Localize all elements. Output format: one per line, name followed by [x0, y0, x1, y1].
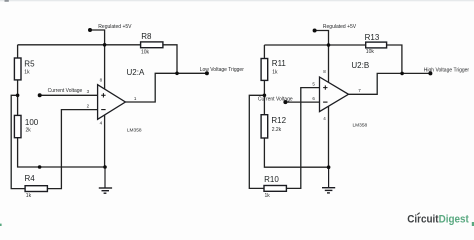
svg-text:High Voltage Trigger: High Voltage Trigger	[424, 67, 470, 73]
junction: pin4/ground row (left)	[103, 165, 107, 169]
wire: op-amp U2:A V- pin 4	[104, 115, 106, 167]
svg-text:LM358: LM358	[353, 123, 368, 129]
resistor R8	[141, 32, 163, 56]
wire: R11 top feed	[263, 45, 265, 59]
ground (left)	[99, 167, 112, 193]
op-amp U2:A	[98, 68, 145, 134]
svg-text:R4: R4	[25, 174, 36, 183]
junction: node A (R5/pot)	[16, 94, 20, 98]
wire: U2:A output to low voltage trigger	[125, 73, 206, 102]
wire: op-amp U2:B V+ pin 8	[328, 45, 330, 82]
svg-text:Current Voltage: Current Voltage	[48, 88, 83, 94]
svg-text:R10: R10	[264, 175, 279, 184]
wire: top rail right segment	[264, 44, 365, 46]
wire: R11 bottom to node B	[263, 80, 265, 114]
junction: R8 to trigger row	[175, 72, 179, 76]
resistor R10	[264, 175, 286, 199]
faint top border	[0, 0, 474, 2]
wire: R10 right up to pin 5	[286, 88, 319, 189]
junction: +5V on rail (right)	[327, 43, 331, 47]
net Current Voltage (right)	[258, 97, 293, 105]
wire: R5 top feed	[17, 45, 19, 58]
net Regulated +5V (right)	[313, 24, 357, 32]
junction: pot wiper on ground row	[38, 165, 42, 169]
wire: op-amp U2:B V- pin 4	[328, 106, 330, 167]
wire: current voltage tap to pin 6	[285, 101, 319, 103]
svg-text:2k: 2k	[26, 128, 32, 134]
svg-text:1k: 1k	[24, 69, 30, 75]
wire: +5V tap to rail (right)	[315, 31, 329, 46]
svg-text:Regulated +5V: Regulated +5V	[98, 24, 132, 30]
junction: pin4/ground row (right)	[327, 165, 331, 169]
svg-text:2.2k: 2.2k	[272, 127, 282, 133]
net Low Voltage Trigger	[200, 67, 245, 75]
ground (right)	[322, 167, 335, 193]
svg-text:R8: R8	[141, 32, 152, 41]
svg-text:Current Voltage: Current Voltage	[258, 97, 293, 103]
wire: top rail left segment	[18, 44, 141, 46]
wire: R13 right to corner, down to trigger row	[387, 45, 402, 73]
wire: U2:B output to high voltage trigger	[349, 73, 431, 94]
CircuitDigest logo	[407, 213, 474, 226]
junction: +5V on rail (left)	[103, 43, 107, 47]
svg-text:U2:B: U2:B	[351, 61, 369, 70]
net High Voltage Trigger	[424, 67, 470, 75]
logo fragment bottom-left	[0, 224, 2, 226]
potentiometer 100 (2k)	[14, 115, 38, 137]
svg-text:R11: R11	[272, 59, 287, 68]
wire: R5 bottom to node	[17, 80, 19, 116]
svg-text:R13: R13	[365, 33, 380, 42]
svg-text:10k: 10k	[366, 49, 375, 55]
svg-text:1k: 1k	[272, 70, 278, 76]
net Current Voltage (left)	[38, 88, 83, 97]
net Regulated +5V (left)	[88, 24, 132, 32]
wire: node A stub left and down left rail to R4	[11, 95, 25, 188]
svg-text:1k: 1k	[265, 193, 271, 199]
resistor R13	[365, 33, 387, 55]
wire: current voltage tap to pin 3	[40, 94, 98, 96]
svg-text:R5: R5	[24, 59, 35, 68]
svg-text:LM358: LM358	[127, 128, 142, 134]
junction: node B (R11/R12)	[263, 94, 267, 98]
svg-text:Regulated +5V: Regulated +5V	[323, 24, 357, 30]
resistor R5	[14, 58, 35, 80]
wire: R8 right to corner, down to trigger row	[163, 45, 177, 74]
svg-text:CircuitDigest: CircuitDigest	[407, 213, 469, 225]
resistor R12	[261, 115, 287, 138]
wire: op-amp U2:A V+ pin 8	[104, 45, 106, 90]
svg-text:1k: 1k	[26, 193, 32, 199]
svg-text:10k: 10k	[141, 50, 150, 56]
wire: R12 bottom to ground row	[264, 138, 328, 167]
resistor R11	[261, 59, 286, 81]
resistor R4	[25, 174, 48, 199]
wire: pot bottom to ground row	[18, 138, 105, 167]
op-amp U2:B	[320, 61, 370, 129]
wire: R4 right up to pin 2	[47, 110, 97, 189]
wire: node B stub left and down rail to R10	[249, 95, 264, 188]
svg-text:U2:A: U2:A	[127, 68, 145, 77]
svg-text:R12: R12	[271, 116, 286, 125]
wire: +5V tap to rail (left)	[90, 30, 105, 45]
svg-text:Low Voltage Trigger: Low Voltage Trigger	[200, 67, 245, 73]
junction: R13 to trigger row	[400, 72, 404, 76]
svg-text:100: 100	[25, 118, 39, 127]
